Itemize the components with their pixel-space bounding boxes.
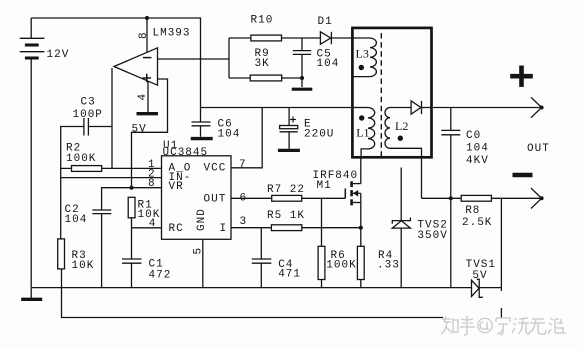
diode D1 <box>320 32 352 44</box>
svg-text:4KV: 4KV <box>466 155 489 167</box>
svg-text:R5 1K: R5 1K <box>267 210 305 222</box>
power bar symbol under LM393 pin4 <box>137 112 159 115</box>
svg-text:5V: 5V <box>472 270 487 282</box>
svg-text:100P: 100P <box>73 109 103 121</box>
capacitor C2 <box>92 210 111 288</box>
capacitor C1 <box>122 228 142 288</box>
wire LM393 output down <box>111 68 113 168</box>
transformer core dashed line <box>380 33 382 156</box>
wire UC3845 pin7 VCC riser <box>231 108 262 168</box>
svg-text:R8: R8 <box>465 205 480 217</box>
wire UC3845 pin2 row <box>61 177 162 179</box>
pin 4 of LM393 <box>147 81 149 112</box>
diode TVS2 zener <box>392 168 410 288</box>
wire bottom rail 2 <box>62 288 444 318</box>
wire LM393 inverting input row <box>158 58 230 60</box>
svg-text:UC3845: UC3845 <box>163 147 209 159</box>
capacitor E electrolytic <box>280 108 298 149</box>
op-amp U2 LM393 <box>114 48 158 85</box>
phase dot L3 <box>359 65 364 70</box>
svg-text:3: 3 <box>240 216 248 228</box>
capacitor C6 <box>192 122 211 137</box>
svg-text:L3: L3 <box>356 47 369 61</box>
svg-text:M1: M1 <box>317 180 332 192</box>
svg-text:471: 471 <box>278 268 301 280</box>
svg-text:100K: 100K <box>326 260 356 272</box>
battery BT 12V <box>20 18 45 288</box>
wire LM393 noninverting input to 5V node <box>132 79 168 188</box>
output terminal arrow minus <box>531 188 544 208</box>
svg-text:VR: VR <box>169 181 184 193</box>
wire C3 row <box>88 126 112 128</box>
capacitor C5 <box>293 38 311 87</box>
winding L1 <box>352 108 374 157</box>
svg-text:3K: 3K <box>255 58 270 70</box>
transformer T1 shield box <box>352 28 431 157</box>
resistor R3 <box>58 239 65 288</box>
winding L2 <box>385 108 422 199</box>
capacitor C4 <box>252 228 271 288</box>
svg-text:C0: C0 <box>466 130 481 142</box>
node junction dot C0 minus row <box>449 196 453 200</box>
wire UC3845 pin8 row <box>102 188 162 210</box>
svg-text:220U: 220U <box>304 128 334 140</box>
ground bar under C5 <box>292 88 313 91</box>
transistor Q1 IRF840 mosfet symbol <box>345 181 361 205</box>
polarity symbol minus output <box>513 173 533 178</box>
resistor R1 <box>128 197 135 228</box>
resistor R8 <box>461 195 541 201</box>
svg-text:10K: 10K <box>72 260 95 272</box>
IC U1 UC3845 <box>162 156 232 240</box>
svg-text:VCC: VCC <box>204 163 227 175</box>
svg-text:D1: D1 <box>318 16 333 28</box>
svg-text:OUT: OUT <box>527 143 550 155</box>
node junction dot C5 R9 ground <box>300 76 304 80</box>
resistor R2 <box>61 166 162 172</box>
ground bar under C6 <box>191 137 213 140</box>
wire right drop to rails <box>500 198 502 291</box>
svg-text:GND: GND <box>196 208 208 231</box>
node junction dot pin8 R1 C2 <box>129 186 133 190</box>
capacitor C3 <box>84 118 89 136</box>
wire rail1 from TVS1 to right drop <box>479 287 501 289</box>
node junction dot source R5 R4 <box>359 226 363 230</box>
resistor R6 <box>318 198 325 287</box>
transistor source wire to R4 node <box>360 203 362 247</box>
resistor R9 <box>229 75 302 81</box>
capacitor C0 <box>441 108 460 288</box>
watermark zhihu <box>441 316 566 335</box>
wire bottom rail 1 <box>31 287 471 289</box>
resistor R4 <box>357 246 364 287</box>
svg-text:4: 4 <box>149 218 157 230</box>
svg-text:C3: C3 <box>81 97 96 109</box>
svg-text:2.5K: 2.5K <box>462 217 492 229</box>
svg-text:350V: 350V <box>417 230 447 242</box>
diode D2 <box>411 101 421 114</box>
svg-text:104: 104 <box>317 58 340 70</box>
phase dot L1 <box>359 115 364 120</box>
pin 5 wire GND stub <box>202 239 204 287</box>
polarity symbol plus output <box>510 66 533 87</box>
svg-text:100K: 100K <box>66 153 96 165</box>
phase dot L2 <box>398 136 403 141</box>
svg-text:8: 8 <box>148 178 156 190</box>
resistor R5 <box>231 225 361 231</box>
resistor R7 <box>231 195 345 201</box>
svg-text:104: 104 <box>218 128 241 140</box>
wire top rail from battery to right corner <box>31 18 200 122</box>
svg-text:12V: 12V <box>47 49 70 61</box>
svg-text:I: I <box>220 223 228 235</box>
svg-text:5V: 5V <box>132 124 147 136</box>
svg-text:472: 472 <box>149 270 172 282</box>
svg-text:.33: .33 <box>377 260 400 272</box>
svg-text:L1: L1 <box>356 126 369 140</box>
ground bar under E <box>278 149 300 152</box>
diode TVS1 zener <box>472 279 483 297</box>
wire R9 R10 left bar <box>228 38 230 78</box>
svg-text:L2: L2 <box>395 119 408 133</box>
svg-text:R10: R10 <box>251 15 274 27</box>
svg-text:7: 7 <box>239 159 247 171</box>
winding L3 <box>352 38 376 77</box>
svg-text:R7 22: R7 22 <box>267 184 305 196</box>
polarity plus mark of E <box>290 117 296 123</box>
svg-text:OUT: OUT <box>204 194 227 206</box>
transistor Q1 IRF840 M1 drain wire <box>360 157 362 184</box>
wire output plus row <box>422 107 542 109</box>
svg-text:8: 8 <box>138 31 150 39</box>
svg-text:104: 104 <box>65 214 88 226</box>
pin 8 of LM393 <box>146 18 148 53</box>
wire output minus row <box>422 197 462 199</box>
output terminal arrow plus <box>531 97 544 117</box>
node junction dot top rail to LM393 pin8 <box>145 16 149 20</box>
ground symbol bottom left <box>21 288 42 300</box>
svg-text:104: 104 <box>466 142 489 154</box>
wire VCC rail to transformer <box>201 107 353 109</box>
svg-text:LM393: LM393 <box>153 28 191 40</box>
svg-text:4: 4 <box>137 93 149 101</box>
wire UC3845 pin4 RC row <box>132 227 162 229</box>
resistor R10 <box>229 35 320 41</box>
svg-text:RC: RC <box>169 223 184 235</box>
